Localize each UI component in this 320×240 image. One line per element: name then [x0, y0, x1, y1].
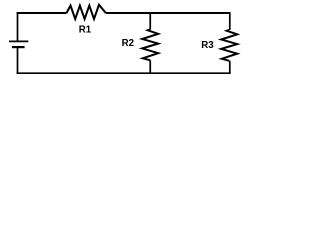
svg-text:R3: R3 — [201, 40, 214, 51]
wire top right section from R1 to top-right corner — [106, 12, 230, 14]
wire R2 bottom lead — [149, 60, 151, 74]
resistor R2 — [142, 30, 158, 61]
wire R2 top lead (from T-junction node on top wire) — [149, 13, 151, 30]
wire bottom — [17, 72, 231, 74]
wire battery negative lead — [17, 47, 19, 74]
wire top-left section from corner to R1 — [17, 12, 67, 14]
wire battery positive lead (up from battery to top-left corner) — [17, 12, 19, 41]
svg-text:R1: R1 — [79, 25, 92, 36]
battery positive plate (long) — [9, 40, 28, 42]
wire R3 bottom lead — [229, 61, 231, 74]
resistor R3 — [221, 30, 237, 61]
wire R3 top lead (right vertical) — [229, 12, 231, 30]
svg-text:R2: R2 — [122, 38, 134, 49]
resistor R1 — [67, 5, 106, 19]
battery negative plate (short) — [12, 46, 25, 48]
